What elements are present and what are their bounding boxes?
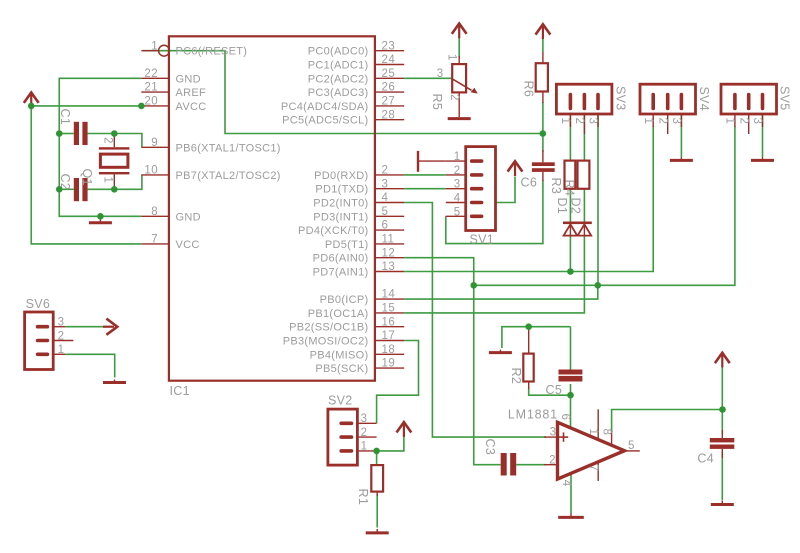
svg-text:1: 1	[361, 441, 368, 453]
wire PD6 AIN0 to C3	[404, 258, 501, 465]
svg-text:2: 2	[58, 330, 65, 342]
SV6 label	[26, 297, 51, 311]
junction C1/XTAL1	[111, 130, 118, 137]
svg-text:1: 1	[446, 54, 458, 61]
wire SV3 pin2 to R4	[583, 113, 585, 161]
wire PD7 AIN1 to SV4 pin1 via D1 node	[404, 126, 653, 272]
svg-text:3: 3	[437, 68, 444, 80]
R2 label	[509, 368, 523, 385]
LM1881 pin7 stub	[597, 462, 599, 481]
IC1 right pin names	[281, 46, 369, 375]
wire SV6 pin1 to GND	[65, 354, 114, 377]
junction SV2 pin1/R1	[373, 448, 380, 455]
svg-text:2: 2	[382, 165, 389, 177]
supply arrow above R6	[536, 24, 551, 39]
ground below SV4	[670, 157, 693, 160]
junction video node B	[595, 282, 602, 289]
wire R2 bottom to pin6 node	[529, 388, 571, 395]
svg-text:PD6(AIN0): PD6(AIN0)	[313, 253, 369, 265]
svg-text:3: 3	[587, 118, 599, 125]
svg-text:PC3(ADC3): PC3(ADC3)	[308, 87, 369, 99]
svg-text:R3: R3	[549, 178, 563, 195]
svg-text:C1: C1	[58, 109, 72, 126]
svg-text:PD1(TXD): PD1(TXD)	[315, 184, 368, 196]
supply arrow above C4	[715, 353, 730, 368]
svg-text:SV2: SV2	[328, 394, 353, 408]
svg-text:28: 28	[382, 109, 396, 121]
SV4 label	[697, 87, 711, 112]
wire GND rail: pin22 to pin8 via left rail	[59, 78, 141, 216]
wire SV5 pin3 to GND	[762, 114, 764, 158]
svg-text:D2: D2	[568, 198, 582, 215]
capacitor C5	[559, 370, 583, 382]
ground below SV5	[751, 157, 774, 160]
svg-text:PC1(ADC1): PC1(ADC1)	[308, 60, 369, 72]
svg-text:14: 14	[382, 289, 396, 301]
supply arrow above R5	[452, 24, 467, 39]
junction LM1881 pin6 node	[567, 392, 574, 399]
wire pin25 PC2 to R5 pin3	[404, 77, 452, 79]
LM1881 pin3 number	[550, 427, 557, 439]
svg-text:7: 7	[151, 234, 158, 246]
resistor R2	[523, 327, 533, 389]
C3 label	[483, 439, 497, 456]
C6 label	[521, 176, 538, 190]
wire R6 top to VCC	[542, 37, 544, 53]
svg-text:16: 16	[382, 316, 396, 328]
svg-text:1: 1	[102, 177, 114, 184]
connector SV5	[721, 84, 777, 134]
Q1 pin1 number	[102, 177, 114, 184]
junction C4/VCC node	[719, 406, 726, 413]
svg-text:12: 12	[382, 247, 396, 259]
C4 label	[697, 452, 714, 466]
resistor R4	[578, 161, 590, 189]
svg-text:1: 1	[454, 151, 461, 163]
junction R2 top rail	[525, 323, 532, 330]
wire C2 right to XTAL2 node	[88, 188, 115, 190]
svg-text:6: 6	[559, 414, 571, 421]
svg-text:7: 7	[587, 465, 599, 472]
svg-text:LM1881: LM1881	[508, 408, 558, 422]
junction C2 gnd rail	[56, 186, 63, 193]
IC1 left pin names	[176, 46, 281, 251]
wire SV3 pin1 to R3	[569, 113, 571, 161]
svg-text:19: 19	[382, 358, 396, 370]
svg-text:2: 2	[573, 118, 585, 125]
svg-text:10: 10	[144, 165, 158, 177]
wire SV1 pin4 to VCC arrow	[496, 177, 516, 203]
wire RESET node to C6 top	[542, 134, 544, 153]
svg-text:C6: C6	[521, 176, 538, 190]
svg-text:Q1: Q1	[80, 169, 94, 186]
ground at crystal	[89, 219, 112, 223]
svg-text:1: 1	[151, 40, 158, 52]
wire C5 bottom to pin6 node	[570, 384, 572, 395]
wire LM1881 pin8 to C4 node	[612, 410, 723, 433]
svg-text:PD2(INT0): PD2(INT0)	[313, 198, 368, 210]
wire XTAL1 node to pin9	[114, 134, 142, 148]
wire pin10 to XTAL2 node	[114, 175, 142, 189]
svg-text:PB1(OC1A): PB1(OC1A)	[308, 308, 369, 320]
svg-text:PB0(ICP): PB0(ICP)	[320, 294, 369, 306]
svg-text:5: 5	[628, 440, 635, 452]
capacitor C3	[501, 453, 517, 476]
C2 label	[58, 174, 72, 191]
wire SV3 pin3 to video node	[597, 113, 599, 286]
Q1 label	[80, 169, 94, 186]
R6 label	[521, 81, 535, 98]
svg-text:27: 27	[382, 96, 396, 108]
svg-text:GND: GND	[176, 73, 201, 85]
wire C3 to LM1881 pin2	[516, 464, 546, 466]
svg-text:3: 3	[550, 427, 557, 439]
R4 label	[563, 180, 577, 197]
LM1881 pin2 stub	[544, 464, 558, 466]
svg-text:23: 23	[382, 40, 396, 52]
svg-text:5: 5	[382, 206, 389, 218]
diode D2	[577, 222, 591, 236]
wire PB0 ICP up to video node	[404, 285, 598, 299]
wire LM1881 pin4 to GND	[570, 475, 572, 514]
svg-text:PB7(XTAL2/TOSC2): PB7(XTAL2/TOSC2)	[176, 170, 281, 182]
LM1881 pin6 number	[559, 414, 571, 421]
svg-text:2: 2	[656, 118, 668, 125]
wire SV2 pin1 down to R1	[376, 451, 378, 465]
svg-text:21: 21	[144, 82, 158, 94]
wire R2/C5 top rail to GND	[502, 327, 571, 348]
svg-text:2: 2	[102, 137, 114, 144]
wire R4 bottom to D2	[583, 189, 585, 222]
svg-text:PD5(T1): PD5(T1)	[325, 239, 369, 251]
svg-text:PD3(INT1): PD3(INT1)	[313, 211, 368, 223]
svg-text:PB2(SS/OC1B): PB2(SS/OC1B)	[289, 322, 368, 334]
svg-text:4: 4	[454, 193, 461, 205]
wire R3 bottom to D1	[569, 189, 571, 222]
LM1881 pin8 number	[600, 429, 612, 436]
LM1881 pin1 number	[587, 429, 599, 436]
resistor R3	[565, 161, 576, 189]
svg-text:PD4(XCK/T0): PD4(XCK/T0)	[298, 225, 369, 237]
capacitor C6	[532, 150, 555, 181]
junction RESET/R6/C6 node	[540, 130, 547, 137]
diode D1	[563, 222, 577, 236]
SV2 label	[328, 394, 353, 408]
svg-text:3: 3	[751, 118, 763, 125]
svg-text:IC1: IC1	[170, 384, 190, 398]
junction D1/AIN1	[567, 268, 574, 275]
junction AVCC pin20	[138, 103, 145, 110]
wire SV4 pin3 to GND	[680, 114, 682, 158]
LM1881 pin3 stub	[544, 436, 558, 438]
wire PD0 RXD to SV1 pin2	[404, 174, 446, 176]
capacitor C4	[710, 430, 735, 458]
svg-text:PC4(ADC4/SDA): PC4(ADC4/SDA)	[281, 101, 369, 113]
C1 label	[58, 109, 72, 126]
LM1881 pin5 number	[628, 440, 635, 452]
svg-text:PC2(ADC2): PC2(ADC2)	[308, 73, 369, 85]
svg-text:3: 3	[382, 178, 389, 190]
junction VCC rail	[28, 103, 35, 110]
svg-text:C3: C3	[483, 439, 497, 456]
crystal Q1	[99, 134, 129, 190]
resistor R1	[371, 465, 383, 496]
wire SV6 pin3 to arrow	[65, 326, 103, 328]
SV6 pin numbers	[58, 317, 65, 357]
svg-text:2: 2	[448, 94, 460, 101]
svg-text:C4: C4	[697, 452, 714, 466]
SV1 pin1 terminator bar	[418, 151, 446, 172]
svg-text:R1: R1	[356, 489, 370, 506]
svg-text:1: 1	[58, 344, 65, 356]
svg-text:1: 1	[724, 118, 736, 125]
connector SV6	[25, 312, 74, 370]
IC1 left pin stubs	[141, 51, 169, 244]
svg-text:GND: GND	[176, 211, 201, 223]
ground below C4	[711, 501, 734, 505]
wire AVCC: VCC node to pin20	[31, 105, 141, 107]
svg-text:3: 3	[58, 317, 65, 329]
IC1 pin1 inversion bubble	[159, 45, 170, 56]
svg-text:22: 22	[144, 68, 158, 80]
svg-text:AREF: AREF	[176, 87, 207, 99]
Q1 pin2 number	[102, 137, 114, 144]
svg-text:1: 1	[559, 118, 571, 125]
wire pin6 node into LM1881	[570, 395, 572, 428]
LM1881 pin4 number	[560, 480, 572, 487]
SV1 label	[470, 233, 495, 247]
D1 label	[555, 198, 569, 215]
ground below R5	[448, 118, 471, 120]
capacitor C2	[74, 178, 88, 201]
ground at SV6 pin1	[103, 380, 126, 383]
svg-text:4: 4	[560, 480, 572, 487]
LM1881 label	[508, 408, 558, 422]
connector SV2	[328, 409, 377, 465]
svg-text:PD0(RXD): PD0(RXD)	[314, 170, 368, 182]
svg-text:8: 8	[600, 429, 612, 436]
svg-text:8: 8	[151, 206, 158, 218]
svg-text:R4: R4	[563, 180, 577, 197]
connector SV4	[640, 84, 696, 134]
svg-text:15: 15	[382, 303, 396, 315]
IC1 left pin numbers	[144, 40, 158, 245]
svg-text:SV4: SV4	[697, 87, 711, 112]
connector SV1	[446, 147, 496, 231]
wire R1 bottom to GND	[376, 494, 378, 528]
svg-text:PC0(ADC0): PC0(ADC0)	[308, 46, 369, 58]
svg-text:D1: D1	[555, 198, 569, 215]
wire GND stub at crystal	[99, 216, 101, 217]
svg-text:PB3(MOSI/OC2): PB3(MOSI/OC2)	[283, 336, 369, 348]
ground below R1	[366, 529, 389, 533]
potentiometer R5	[452, 56, 478, 117]
wire C4 bottom to GND	[721, 452, 723, 500]
R5 pin3 number	[437, 68, 444, 80]
wire C6 bottom to SV1 pin5	[446, 180, 543, 244]
R5 pin2 number	[448, 94, 460, 101]
LM1881 pin7 number	[587, 465, 599, 472]
svg-text:SV3: SV3	[614, 86, 628, 111]
svg-text:20: 20	[144, 96, 158, 108]
R3 label	[549, 178, 563, 195]
svg-text:VCC: VCC	[176, 239, 200, 251]
svg-text:SV6: SV6	[26, 297, 51, 311]
svg-text:PB6(XTAL1/TOSC1): PB6(XTAL1/TOSC1)	[176, 142, 281, 154]
wire VCC rail: VCC arrow down to pin7	[31, 104, 141, 244]
IC1 right pin numbers	[382, 40, 396, 369]
junction C1 gnd rail	[56, 130, 63, 137]
svg-text:24: 24	[382, 54, 396, 66]
wire SV2 pin1 to VCC arrow	[377, 436, 404, 451]
junction C2/XTAL2	[111, 186, 118, 193]
wire C1 right to XTAL node	[88, 133, 115, 135]
svg-text:3: 3	[670, 118, 682, 125]
svg-text:2: 2	[549, 455, 556, 467]
wire PB3 MOSI/OC2 to SV2 pin3	[377, 341, 419, 424]
output arrow at SV6 pin3	[103, 319, 117, 335]
IC1 reference label	[170, 384, 190, 398]
svg-text:6: 6	[382, 220, 389, 232]
SV1 pin numbers	[454, 151, 461, 218]
svg-text:PB4(MISO): PB4(MISO)	[310, 349, 369, 361]
D2 label	[568, 198, 582, 215]
svg-text:1: 1	[642, 118, 654, 125]
LM1881 pin5 stub	[625, 450, 640, 452]
svg-text:13: 13	[382, 261, 396, 273]
svg-text:C5: C5	[546, 383, 563, 397]
SV5 pin numbers	[724, 118, 764, 125]
svg-text:2: 2	[454, 165, 461, 177]
supply arrow at SV2 pin1	[397, 422, 412, 437]
wire C5 top drop	[570, 327, 572, 370]
op-amp U2 LM1881 triangle	[558, 422, 625, 479]
LM1881 pin2 number	[549, 455, 556, 467]
LM1881 pin1 stub	[597, 409, 599, 439]
junction video node A	[470, 282, 477, 289]
ground at R2/C5 rail	[489, 350, 512, 353]
wire video node h2 to SV5 pin1	[474, 126, 735, 285]
R5 label	[430, 94, 444, 111]
capacitor C1	[74, 122, 88, 145]
svg-text:3: 3	[361, 413, 368, 425]
supply arrow at SV1 pin4	[508, 161, 523, 176]
svg-text:2: 2	[737, 118, 749, 125]
svg-text:PC6(/RESET): PC6(/RESET)	[176, 46, 248, 58]
svg-text:18: 18	[382, 344, 396, 356]
connector SV3	[556, 84, 612, 134]
wire PD2 INT0 to LM1881 pin3	[404, 203, 546, 438]
junction gnd at crystal	[97, 213, 104, 220]
SV3 pin numbers	[559, 118, 599, 125]
wire R6 bottom to RESET node	[542, 102, 544, 134]
svg-text:11: 11	[382, 234, 395, 246]
svg-text:5: 5	[454, 206, 461, 218]
wire R5 top to VCC	[458, 36, 460, 58]
svg-text:SV5: SV5	[777, 86, 791, 111]
R5 pin1 number	[446, 54, 458, 61]
svg-text:R5: R5	[430, 94, 444, 111]
svg-text:PD7(AIN1): PD7(AIN1)	[313, 267, 369, 279]
IC1 right pin stubs	[375, 51, 404, 368]
svg-text:R6: R6	[521, 81, 535, 98]
ground below LM1881	[558, 513, 584, 517]
R1 label	[356, 489, 370, 506]
SV2 pin numbers	[361, 413, 368, 453]
svg-text:3: 3	[454, 179, 461, 191]
svg-text:2: 2	[361, 427, 368, 439]
svg-text:1: 1	[587, 429, 599, 436]
svg-text:9: 9	[151, 137, 158, 149]
resistor R6	[536, 52, 548, 103]
svg-text:PB5(SCK): PB5(SCK)	[315, 363, 368, 375]
SV3 label	[614, 86, 628, 111]
wire C2 left	[59, 188, 74, 190]
svg-text:SV1: SV1	[470, 233, 495, 247]
wire C1 left	[59, 133, 74, 135]
svg-text:26: 26	[382, 82, 396, 94]
wire PD1 TXD to SV1 pin3	[404, 188, 446, 190]
LM1881 pin8 stub	[611, 430, 613, 445]
svg-text:PC5(ADC5/SCL): PC5(ADC5/SCL)	[282, 115, 368, 127]
svg-text:AVCC: AVCC	[176, 101, 207, 113]
SV4 pin numbers	[642, 118, 682, 125]
supply arrow VCC left	[24, 93, 39, 108]
svg-text:4: 4	[382, 192, 389, 204]
wire PB1 OC1A up to D2	[404, 236, 584, 313]
svg-text:25: 25	[382, 68, 396, 80]
C5 label	[546, 383, 563, 397]
IC U1 (IC1 ATmega8) body	[169, 36, 375, 380]
svg-text:17: 17	[382, 330, 396, 342]
wire VCC arrow to C4	[721, 367, 723, 435]
wire D1 bottom to AIN1 net	[569, 236, 571, 272]
wire RESET net: pin1 PC6 to R6/C6 node	[143, 51, 543, 134]
svg-text:R2: R2	[509, 368, 523, 385]
SV5 label	[777, 86, 791, 111]
